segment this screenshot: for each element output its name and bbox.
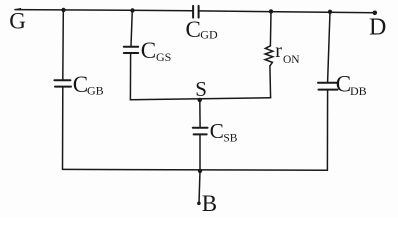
capacitor C_DB [318,83,338,90]
svg-text:r: r [275,40,282,62]
svg-text:C: C [210,119,224,143]
label C_GS [141,38,172,64]
terminal dot at B [197,202,201,206]
junction dot: gate node / C_GS branch [130,8,134,12]
wire: C_GS plate down to S rail [129,54,131,100]
svg-text:GS: GS [156,50,171,64]
junction dot: gate node / C_GB branch [61,8,65,12]
capacitor C_SB [193,128,208,135]
wire: C_GB branch lower segment [62,87,64,169]
svg-text:C: C [186,17,201,42]
label r_ON [275,40,300,66]
junction dot: drain node / r_ON branch [269,9,273,13]
svg-text:B: B [202,191,217,216]
svg-text:D: D [369,14,386,40]
wire: S node down to C_SB [199,100,201,127]
capacitor C_GD (series in top rail) [193,6,199,18]
label C_SB [210,119,238,145]
capacitor C_GB [54,80,71,86]
svg-text:C: C [336,72,351,97]
wire: C_GB branch upper segment [62,10,65,80]
capacitor C_GS [124,47,138,53]
resistor r_ON [265,46,273,66]
label C_GB [73,72,104,98]
terminal dot at D [373,11,378,16]
svg-text:ON: ON [283,54,300,66]
wire: C_DB branch lower segment [326,90,328,170]
svg-text:GD: GD [200,28,218,42]
junction dot: drain node / C_DB branch [328,10,332,14]
svg-text:G: G [9,9,26,34]
junction dot: S node [198,98,202,102]
wire: r_ON branch upper segment [269,11,272,45]
wire: C_DB branch upper segment [328,12,330,82]
junction dot: bulk node / B stub [198,169,202,173]
svg-text:SB: SB [223,133,237,145]
terminal arrow at G [14,8,21,11]
svg-text:C: C [73,72,88,97]
wire: B terminal stub [199,171,200,203]
wire top rail: C_GD right plate to D terminal [200,11,375,13]
label G [9,9,26,34]
wire: S rail (source node) [130,98,270,100]
wire: C_SB down to bottom rail [199,135,201,171]
svg-text:C: C [141,38,156,63]
svg-text:S: S [195,77,207,101]
label C_DB [336,72,367,99]
label B [202,191,217,216]
wire: bottom rail (bulk node) [63,168,328,171]
wire: r_ON down to S rail [269,66,272,98]
svg-text:GB: GB [87,83,104,97]
label C_GD [186,17,218,42]
wire top rail: G terminal to C_GD left plate [15,10,192,11]
svg-text:DB: DB [350,84,367,98]
label S [195,77,207,101]
label D [369,14,386,40]
wire: C_GS branch upper segment [131,10,132,46]
